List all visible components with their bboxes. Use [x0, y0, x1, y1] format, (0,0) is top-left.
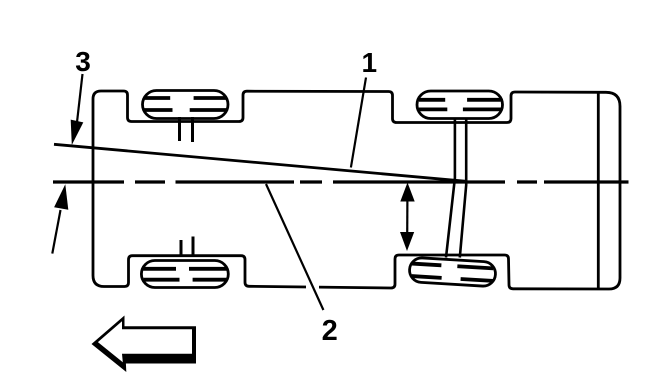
body interior vertical line (cab line) — [597, 92, 600, 289]
svg-text:1: 1 — [362, 47, 378, 78]
wheel front-right (top-right) tire — [417, 91, 503, 119]
label 1 leader line — [351, 78, 366, 168]
wheel rear-right (bottom-right) tire, toed — [409, 257, 496, 287]
gap in bottom edge where leader 2 crosses — [306, 281, 319, 290]
direction-of-travel arrow (outline, shadow) — [92, 316, 197, 373]
left reference arrow shaft (points up at centerline) — [52, 210, 60, 254]
offset arrow upper head — [400, 183, 414, 202]
offset arrow lower head — [400, 232, 414, 251]
wheel front-left axle stub — [178, 117, 181, 141]
vehicle body outline — [93, 91, 620, 289]
wheel rear-left (bottom-left) tire — [141, 261, 228, 288]
wheel front-left tread lines — [144, 98, 227, 110]
wheel rear-left axle stub — [180, 240, 183, 256]
geometric centerline (dashed) — [53, 180, 629, 183]
thrust line (solid diagonal) — [54, 144, 466, 181]
label 2 leader line — [266, 184, 323, 310]
label 3 arrowhead — [71, 120, 84, 145]
wheel front-left (top-left) tire — [143, 91, 229, 119]
thrust angle offset double arrow shaft — [406, 198, 408, 236]
svg-text:2: 2 — [322, 315, 338, 347]
wheel front-right tread lines — [419, 100, 501, 110]
left reference arrowhead — [54, 184, 68, 209]
label 3 leader line — [77, 74, 83, 124]
svg-text:3: 3 — [75, 46, 91, 77]
wheel rear-left tread lines — [143, 269, 226, 280]
front axle line right — [460, 118, 466, 258]
front axle line left — [446, 118, 455, 258]
direction-of-travel arrow white interior — [98, 321, 192, 362]
